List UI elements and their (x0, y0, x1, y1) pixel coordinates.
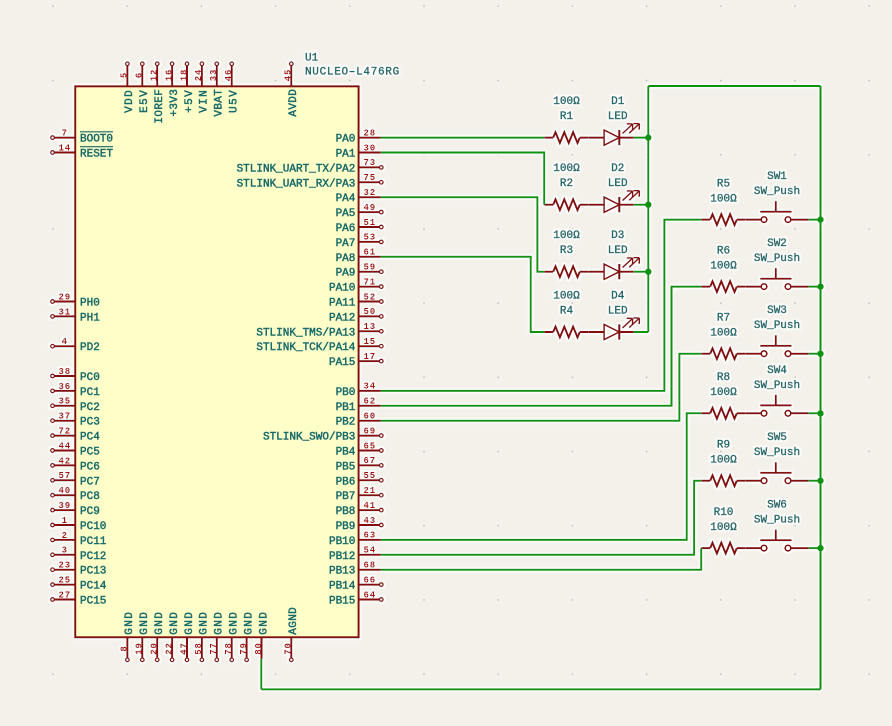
svg-text:64: 64 (363, 590, 376, 600)
resistor R5 100Ω (701, 179, 746, 226)
svg-text:100Ω: 100Ω (710, 387, 737, 399)
svg-text:22: 22 (164, 642, 174, 655)
svg-text:AGND: AGND (288, 607, 300, 635)
svg-text:PB4: PB4 (336, 447, 356, 459)
pin 42 PC6 (left) (51, 456, 100, 473)
pin 41 PB8 (right) (336, 501, 384, 518)
svg-text:PA10: PA10 (329, 283, 355, 295)
svg-text:PA9: PA9 (336, 268, 356, 280)
pin 51 PA6 (right) (336, 218, 384, 235)
pin 24 VIN (top) (194, 62, 211, 113)
wire D1 cathode to LED bus (634, 137, 649, 139)
pin 18 +5V (top) (179, 62, 196, 113)
pin 30 PA1 (right) (336, 143, 381, 160)
pin 78 GND (bottom) (224, 611, 241, 662)
svg-text:12: 12 (150, 69, 160, 82)
svg-text:6: 6 (135, 72, 145, 78)
svg-text:PC5: PC5 (80, 447, 100, 459)
svg-text:32: 32 (363, 188, 376, 198)
wire D4 cathode to LED bus (634, 331, 649, 333)
svg-text:23: 23 (58, 561, 71, 571)
svg-text:13: 13 (363, 322, 376, 332)
junction LED bus row 2 (645, 202, 651, 208)
svg-text:PC7: PC7 (80, 476, 100, 488)
pin 62 PB1 (right) (336, 397, 381, 414)
pin 79 GND (bottom) (239, 611, 256, 662)
svg-text:63: 63 (363, 531, 376, 541)
pin 6 E5V (top) (135, 62, 152, 113)
switch SW1 SW_Push (746, 171, 809, 222)
svg-text:GND: GND (199, 611, 211, 635)
svg-text:69: 69 (363, 426, 376, 436)
svg-text:PB15: PB15 (329, 596, 355, 608)
svg-text:PC9: PC9 (80, 506, 100, 518)
svg-text:PA5: PA5 (336, 208, 356, 220)
svg-text:100Ω: 100Ω (553, 291, 580, 303)
svg-text:R9: R9 (717, 440, 730, 452)
wire D2 cathode to LED bus (634, 204, 649, 206)
wire PB1 to R6/SW2 (381, 287, 701, 406)
svg-text:58: 58 (194, 642, 204, 655)
pin 46 U5V (top) (224, 62, 241, 113)
svg-text:VIN: VIN (199, 89, 211, 113)
svg-text:GND: GND (154, 611, 166, 635)
svg-text:80: 80 (254, 642, 264, 655)
LED D4 (589, 291, 640, 340)
wire PB12 to R9/SW5 (381, 481, 701, 555)
svg-text:39: 39 (58, 501, 71, 511)
svg-text:SW_Push: SW_Push (754, 447, 800, 459)
svg-text:PH0: PH0 (80, 298, 100, 310)
svg-text:25: 25 (58, 576, 71, 586)
wire PA8 to R4 (381, 257, 544, 332)
pin 16 +3V3 (top) (164, 62, 181, 117)
pin 38 PC0 (left) (51, 367, 100, 384)
svg-text:SW_Push: SW_Push (754, 253, 800, 265)
pin 14 RESET (left) (51, 143, 114, 160)
svg-text:PB7: PB7 (336, 491, 356, 503)
pin 44 PC5 (left) (51, 441, 100, 458)
svg-text:15: 15 (363, 337, 376, 347)
wire D3 cathode to LED bus (634, 271, 649, 273)
pin 67 PB5 (right) (336, 456, 384, 473)
svg-text:17: 17 (363, 352, 376, 362)
svg-text:PC3: PC3 (80, 417, 100, 429)
svg-text:PA11: PA11 (329, 298, 356, 310)
svg-text:PC15: PC15 (80, 596, 106, 608)
svg-text:U1: U1 (305, 53, 319, 65)
svg-text:GND: GND (258, 611, 270, 635)
svg-text:SW_Push: SW_Push (754, 320, 800, 332)
junction switch bus SW2 (817, 283, 823, 289)
svg-text:PB8: PB8 (336, 506, 356, 518)
IC U1 NUCLEO-L476RG body (75, 86, 358, 637)
svg-text:GND: GND (214, 611, 226, 635)
svg-text:44: 44 (58, 441, 71, 451)
wire bottom return (261, 688, 820, 690)
svg-text:PB10: PB10 (329, 536, 355, 548)
svg-text:PB9: PB9 (336, 521, 356, 533)
wire SW2 to right bus (809, 286, 821, 288)
svg-text:R4: R4 (560, 306, 574, 318)
svg-text:BOOT0: BOOT0 (80, 134, 113, 146)
svg-text:SW_Push: SW_Push (754, 515, 800, 527)
svg-text:GND: GND (169, 611, 181, 635)
svg-text:2: 2 (62, 531, 68, 541)
pin 59 PA9 (right) (336, 263, 384, 280)
resistor R10 100Ω (701, 507, 746, 554)
svg-text:PC14: PC14 (80, 581, 107, 593)
svg-text:R7: R7 (717, 313, 730, 325)
wire SW6 to right bus (809, 547, 821, 549)
svg-text:AVDD: AVDD (288, 89, 300, 117)
svg-text:100Ω: 100Ω (553, 96, 580, 108)
svg-text:59: 59 (363, 263, 376, 273)
pin 73 STLINK_UART_TX/PA2 (right) (237, 158, 384, 175)
svg-text:66: 66 (363, 575, 376, 585)
pin 58 GND (bottom) (194, 611, 211, 662)
pin 75 STLINK_UART_RX/PA3 (right) (237, 173, 384, 190)
svg-text:PB2: PB2 (336, 417, 356, 429)
svg-text:4: 4 (62, 337, 68, 347)
svg-text:E5V: E5V (139, 89, 151, 113)
svg-text:SW2: SW2 (767, 238, 787, 250)
resistor R9 100Ω (701, 440, 746, 487)
svg-text:57: 57 (58, 471, 71, 481)
junction LED bus row 3 (645, 269, 651, 275)
svg-text:PA15: PA15 (329, 357, 355, 369)
svg-text:LED: LED (608, 178, 628, 190)
svg-text:5: 5 (120, 72, 130, 78)
pin 65 PB4 (right) (336, 441, 384, 458)
switch SW2 SW_Push (746, 238, 809, 289)
pin 55 PB6 (right) (336, 471, 384, 488)
svg-text:PC2: PC2 (80, 402, 100, 414)
pin 64 PB15 (right) (329, 590, 383, 607)
svg-text:LED: LED (608, 306, 628, 318)
svg-text:STLINK_TMS/PA13: STLINK_TMS/PA13 (256, 327, 355, 339)
svg-text:31: 31 (58, 307, 71, 317)
svg-text:STLINK_UART_TX/PA2: STLINK_UART_TX/PA2 (237, 163, 356, 175)
svg-text:100Ω: 100Ω (553, 163, 580, 175)
svg-text:37: 37 (58, 412, 71, 422)
svg-text:R3: R3 (560, 245, 573, 257)
pin 60 PB2 (right) (336, 412, 381, 429)
svg-text:D4: D4 (611, 291, 625, 303)
pin 7 BOOT0 (left) (51, 129, 113, 146)
wire PB13 to R10/SW6 (381, 548, 701, 570)
svg-text:LED: LED (608, 245, 628, 257)
svg-text:72: 72 (58, 427, 71, 437)
pin 5 VDD (top) (120, 62, 137, 113)
wire PB2 to R7/SW3 (381, 354, 701, 421)
svg-text:PC8: PC8 (80, 491, 100, 503)
wire GND pin 80 drop (260, 659, 262, 690)
pin 29 PH0 (left) (51, 292, 100, 309)
resistor R7 100Ω (701, 313, 746, 360)
svg-text:SW6: SW6 (767, 500, 787, 512)
svg-text:U5V: U5V (229, 89, 241, 113)
pin 36 PC1 (left) (51, 382, 101, 399)
svg-text:41: 41 (363, 501, 376, 511)
svg-text:SW_Push: SW_Push (754, 186, 800, 198)
svg-text:20: 20 (150, 642, 160, 655)
pin 12 IOREF (top) (150, 62, 167, 124)
svg-text:PC11: PC11 (80, 536, 107, 548)
wire PA0 to R1 (381, 137, 544, 139)
svg-text:100Ω: 100Ω (710, 194, 737, 206)
junction switch bus SW5 (817, 478, 823, 484)
switch SW4 SW_Push (746, 365, 809, 416)
resistor R4 100Ω (544, 291, 589, 338)
svg-text:18: 18 (179, 69, 189, 82)
LED D2 (589, 163, 640, 212)
pin 70 AGND (bottom) (284, 607, 301, 662)
svg-text:51: 51 (363, 218, 376, 228)
resistor R1 100Ω (544, 96, 589, 143)
svg-text:14: 14 (58, 143, 71, 153)
svg-text:PB5: PB5 (336, 461, 356, 473)
pin 50 PA12 (right) (329, 307, 383, 324)
svg-text:LED: LED (608, 111, 628, 123)
svg-text:R10: R10 (714, 507, 734, 519)
junction switch bus SW3 (817, 351, 823, 357)
svg-text:R8: R8 (717, 372, 730, 384)
svg-text:SW5: SW5 (767, 432, 787, 444)
svg-text:49: 49 (363, 203, 376, 213)
svg-text:40: 40 (58, 486, 71, 496)
svg-text:PC4: PC4 (80, 432, 100, 444)
svg-text:GND: GND (229, 611, 241, 635)
svg-text:D3: D3 (611, 230, 624, 242)
pin 13 STLINK_TMS/PA13 (right) (256, 322, 383, 339)
pin 27 PC15 (left) (51, 590, 107, 607)
pin 8 GND (bottom) (120, 611, 137, 662)
pin 57 PC7 (left) (51, 471, 100, 488)
pin 77 GND (bottom) (209, 611, 226, 662)
wire PA1 to R2 (381, 153, 544, 205)
svg-text:+5V: +5V (184, 89, 196, 113)
svg-text:GND: GND (184, 611, 196, 635)
wire PB0 to R5/SW1 (381, 220, 701, 391)
svg-text:73: 73 (363, 158, 376, 168)
svg-text:60: 60 (363, 412, 376, 422)
wire SW5 to right bus (809, 480, 821, 482)
resistor R2 100Ω (544, 163, 589, 210)
svg-text:PA4: PA4 (336, 193, 356, 205)
svg-text:7: 7 (62, 129, 68, 139)
pin 21 PB7 (right) (336, 486, 384, 503)
svg-text:PA12: PA12 (329, 312, 355, 324)
svg-text:53: 53 (363, 233, 376, 243)
svg-text:STLINK_SWO/PB3: STLINK_SWO/PB3 (263, 432, 355, 444)
svg-text:3: 3 (62, 546, 68, 556)
pin 52 PA11 (right) (329, 292, 383, 309)
pin 66 PB14 (right) (329, 575, 383, 592)
svg-text:28: 28 (363, 128, 376, 138)
svg-text:35: 35 (58, 397, 71, 407)
svg-text:GND: GND (243, 611, 255, 635)
svg-text:GND: GND (139, 611, 151, 635)
svg-text:19: 19 (135, 642, 145, 655)
svg-text:61: 61 (363, 248, 376, 258)
switch SW6 SW_Push (746, 500, 809, 551)
pin 2 PC11 (left) (51, 531, 107, 548)
pin 49 PA5 (right) (336, 203, 384, 220)
svg-text:PA6: PA6 (336, 223, 356, 235)
svg-text:77: 77 (209, 642, 219, 655)
svg-text:PA7: PA7 (336, 238, 356, 250)
svg-text:8: 8 (120, 645, 130, 651)
resistor R8 100Ω (701, 372, 746, 419)
svg-text:PC10: PC10 (80, 521, 106, 533)
pin 43 PB9 (right) (336, 516, 384, 533)
svg-text:PB6: PB6 (336, 476, 356, 488)
junction LED bus row 1 (645, 134, 651, 140)
svg-text:D1: D1 (611, 96, 625, 108)
wire LED cathode bus (647, 86, 649, 332)
LED D1 (589, 96, 640, 145)
wire PB10 to R8/SW4 (381, 413, 701, 540)
svg-text:70: 70 (284, 642, 294, 655)
svg-text:27: 27 (58, 590, 71, 600)
svg-text:100Ω: 100Ω (710, 455, 737, 467)
svg-text:SW1: SW1 (767, 171, 787, 183)
pin 39 PC9 (left) (51, 501, 100, 518)
pin 71 PA10 (right) (329, 277, 383, 294)
svg-text:78: 78 (224, 642, 234, 655)
svg-text:STLINK_TCK/PA14: STLINK_TCK/PA14 (256, 342, 355, 354)
resistor R6 100Ω (701, 246, 746, 293)
svg-text:30: 30 (363, 143, 376, 153)
svg-text:45: 45 (284, 69, 294, 82)
svg-text:GND: GND (124, 611, 136, 635)
svg-text:33: 33 (209, 69, 219, 82)
svg-text:PC13: PC13 (80, 566, 106, 578)
svg-text:79: 79 (239, 642, 249, 655)
pin 63 PB10 (right) (329, 531, 381, 548)
svg-text:100Ω: 100Ω (553, 230, 580, 242)
pin 61 PA8 (right) (336, 248, 381, 265)
svg-text:R2: R2 (560, 178, 573, 190)
wire LED bus to switch bus (top) (648, 85, 820, 87)
svg-text:16: 16 (164, 69, 174, 82)
pin 19 GND (bottom) (135, 611, 152, 662)
svg-text:PC6: PC6 (80, 461, 100, 473)
pin 72 PC4 (left) (51, 427, 101, 444)
svg-text:D2: D2 (611, 163, 624, 175)
svg-text:PC0: PC0 (80, 372, 100, 384)
svg-text:100Ω: 100Ω (710, 522, 737, 534)
svg-text:55: 55 (363, 471, 376, 481)
pin 54 PB12 (right) (329, 546, 381, 563)
switch SW5 SW_Push (746, 432, 809, 483)
svg-text:42: 42 (58, 456, 71, 466)
svg-text:SW3: SW3 (767, 305, 787, 317)
pin 33 VBAT (top) (209, 62, 226, 117)
svg-text:52: 52 (363, 292, 376, 302)
pin 47 GND (bottom) (179, 611, 196, 662)
pin 45 AVDD (top) (284, 62, 301, 117)
pin 25 PC14 (left) (51, 576, 107, 593)
pin 68 PB13 (right) (329, 561, 381, 578)
svg-text:VDD: VDD (124, 89, 136, 113)
svg-text:29: 29 (58, 292, 71, 302)
pin 37 PC3 (left) (51, 412, 100, 429)
svg-text:50: 50 (363, 307, 376, 317)
svg-text:PB13: PB13 (329, 566, 355, 578)
svg-text:34: 34 (363, 382, 376, 392)
svg-text:65: 65 (363, 441, 376, 451)
svg-text:PC1: PC1 (80, 387, 100, 399)
svg-text:43: 43 (363, 516, 376, 526)
svg-text:67: 67 (363, 456, 376, 466)
svg-text:IOREF: IOREF (154, 89, 166, 124)
wire SW1 to right bus (809, 219, 821, 221)
pin 34 PB0 (right) (336, 382, 381, 399)
wire SW4 to right bus (809, 412, 821, 414)
pin 23 PC13 (left) (51, 561, 107, 578)
pin 17 PA15 (right) (329, 352, 383, 369)
pin 53 PA7 (right) (336, 233, 384, 250)
svg-text:36: 36 (58, 382, 71, 392)
wire SW3 to right bus (809, 353, 821, 355)
svg-text:PD2: PD2 (80, 342, 100, 354)
svg-text:STLINK_UART_RX/PA3: STLINK_UART_RX/PA3 (237, 178, 356, 190)
svg-text:SW_Push: SW_Push (754, 380, 800, 392)
svg-text:71: 71 (363, 277, 376, 287)
wire PA4 to R3 (381, 197, 544, 272)
svg-text:NUCLEO–L476RG: NUCLEO–L476RG (305, 67, 400, 79)
svg-text:46: 46 (224, 69, 234, 82)
pin 31 PH1 (left) (51, 307, 101, 324)
svg-text:68: 68 (363, 561, 376, 571)
svg-text:100Ω: 100Ω (710, 261, 737, 273)
pin 15 STLINK_TCK/PA14 (right) (256, 337, 383, 354)
junction switch bus SW4 (817, 410, 823, 416)
pin 69 STLINK_SWO/PB3 (right) (263, 426, 383, 443)
LED D3 (589, 230, 640, 279)
svg-text:PB14: PB14 (329, 581, 356, 593)
junction switch bus SW1 (817, 216, 823, 222)
pin 1 PC10 (left) (51, 516, 107, 533)
svg-text:100Ω: 100Ω (710, 328, 737, 340)
svg-text:SW4: SW4 (767, 365, 787, 377)
wire switch common bus (right) (820, 86, 822, 689)
junction switch bus SW6 (817, 545, 823, 551)
pin 28 PA0 (right) (336, 128, 381, 145)
svg-text:R5: R5 (717, 179, 730, 191)
svg-text:1: 1 (62, 516, 68, 526)
pin 32 PA4 (right) (336, 188, 381, 205)
svg-text:21: 21 (363, 486, 376, 496)
svg-text:PB12: PB12 (329, 551, 355, 563)
switch SW3 SW_Push (746, 305, 809, 356)
svg-text:47: 47 (179, 642, 189, 655)
svg-text:RESET: RESET (80, 149, 113, 161)
pin 22 GND (bottom) (164, 611, 181, 662)
pin 80 GND (bottom) (254, 611, 271, 659)
pin 20 GND (bottom) (150, 611, 167, 662)
pin 4 PD2 (left) (51, 337, 100, 354)
svg-text:R6: R6 (717, 246, 730, 258)
svg-text:62: 62 (363, 397, 376, 407)
svg-text:VBAT: VBAT (214, 89, 226, 117)
svg-text:PC12: PC12 (80, 551, 106, 563)
svg-text:PB1: PB1 (336, 402, 356, 414)
pin 3 PC12 (left) (51, 546, 107, 563)
svg-text:38: 38 (58, 367, 71, 377)
